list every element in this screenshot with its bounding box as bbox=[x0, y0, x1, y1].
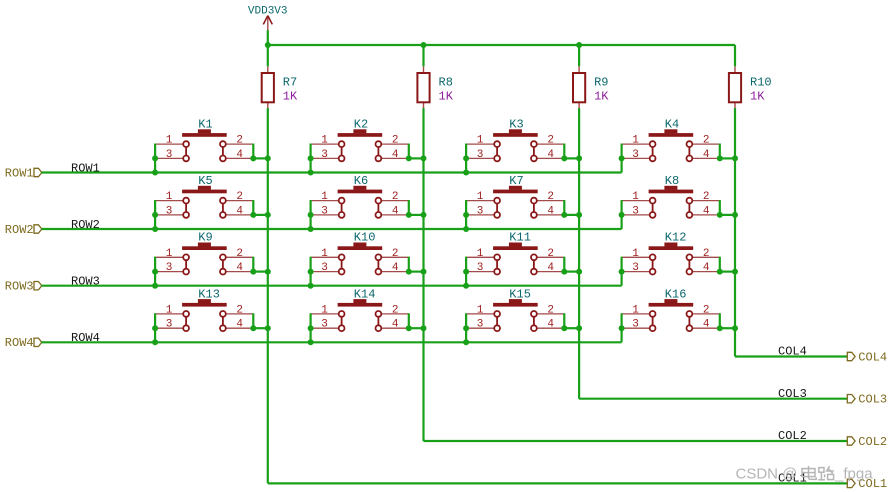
junction: top bus at R7 bbox=[265, 42, 271, 48]
svg-text:_fpga: _fpga bbox=[834, 466, 873, 483]
junction: K12 at COL4 column bbox=[732, 269, 738, 275]
K8 actuator bump bbox=[664, 186, 677, 190]
K16 pin 2 bbox=[692, 313, 720, 315]
junction: K7 pin4/right bbox=[561, 212, 567, 218]
K6 pin 2 bbox=[381, 200, 409, 202]
K2 pin 3 bbox=[311, 157, 339, 159]
wire: R10 to COL4 column bbox=[734, 108, 736, 356]
svg-text:COL3: COL3 bbox=[858, 393, 887, 407]
push button K3 bbox=[466, 118, 564, 162]
svg-text:3: 3 bbox=[477, 319, 484, 331]
K14 pin 1 bbox=[311, 313, 339, 315]
wire: COL4 output run to port bbox=[735, 355, 849, 357]
push button K5 bbox=[155, 174, 253, 218]
junction: K6 pin3/left bbox=[308, 212, 314, 218]
power symbol VDD3V3 bbox=[248, 5, 288, 30]
wire: K4 pin 2 drop bbox=[719, 144, 721, 159]
junction: K6 at ROW2 bus bbox=[308, 226, 314, 232]
K15 button bar bbox=[493, 303, 538, 307]
junction: K8 pin4/right bbox=[717, 212, 723, 218]
junction: K9 at ROW3 bus bbox=[152, 283, 158, 289]
svg-text:COL4: COL4 bbox=[778, 345, 807, 359]
K3 pin 1 bbox=[466, 143, 494, 145]
K5 pin 1 bbox=[155, 200, 183, 202]
wire: top bus to R8 bbox=[422, 45, 424, 66]
wire: K8 pins 1/3 to ROW2 bbox=[620, 200, 622, 229]
svg-text:2: 2 bbox=[703, 191, 710, 203]
K12 left contact link bbox=[652, 261, 654, 269]
K5 pin 3 bbox=[155, 214, 183, 216]
K4 actuator bump bbox=[664, 129, 677, 133]
wire: K11 pins 1/3 to ROW3 bbox=[465, 257, 467, 286]
wire: K5 pins 1/3 to ROW2 bbox=[154, 200, 156, 229]
resistor R8 1K bbox=[417, 66, 453, 108]
K8 button bar bbox=[649, 190, 694, 194]
K1 left contact link bbox=[185, 148, 187, 156]
K6 left contact link bbox=[341, 204, 343, 212]
junction: K2 at ROW1 bus bbox=[308, 170, 314, 176]
svg-text:ROW1: ROW1 bbox=[71, 161, 100, 175]
junction: K1 pin3/left bbox=[152, 155, 158, 161]
K7 pin 3 bbox=[466, 214, 494, 216]
K7 actuator bump bbox=[509, 186, 522, 190]
K15 right contact link bbox=[533, 317, 535, 325]
junction: K2 pin4/right bbox=[406, 155, 412, 161]
K10 button bar bbox=[338, 246, 383, 250]
junction: K1 pin4/right bbox=[250, 155, 256, 161]
K14 actuator bump bbox=[353, 299, 366, 303]
K2 left contact link bbox=[341, 148, 343, 156]
svg-text:2: 2 bbox=[703, 305, 710, 317]
K7 left contact link bbox=[496, 204, 498, 212]
K14 right contact link bbox=[377, 317, 379, 325]
K1 pin 3 bbox=[155, 157, 183, 159]
svg-text:COL2: COL2 bbox=[778, 429, 807, 443]
K9 pin 1 bbox=[155, 256, 183, 258]
junction: K16 at COL4 column bbox=[732, 325, 738, 331]
svg-text:1: 1 bbox=[166, 305, 173, 317]
svg-text:3: 3 bbox=[166, 319, 173, 331]
wire: K12 pin 2 drop bbox=[719, 257, 721, 272]
K9 pin 3 bbox=[155, 271, 183, 273]
junction: top bus at R9 bbox=[576, 42, 582, 48]
K8 pin 1 bbox=[622, 200, 650, 202]
svg-text:3: 3 bbox=[477, 205, 484, 217]
svg-text:ROW1: ROW1 bbox=[5, 166, 34, 180]
K1 pin 2 bbox=[226, 143, 254, 145]
wire: K2 pin 4 to COL2 bbox=[409, 157, 424, 159]
hierarchical port COL3 bbox=[847, 393, 887, 407]
svg-text:ROW4: ROW4 bbox=[5, 336, 34, 350]
svg-text:3: 3 bbox=[321, 262, 328, 274]
svg-text:2: 2 bbox=[236, 191, 243, 203]
K16 right contact link bbox=[688, 317, 690, 325]
wire: K13 pins 1/3 to ROW4 bbox=[154, 313, 156, 342]
junction: K7 pin3/left bbox=[463, 212, 469, 218]
svg-text:1: 1 bbox=[477, 305, 484, 317]
K4 left contact link bbox=[652, 148, 654, 156]
K3 pin 4 bbox=[537, 157, 565, 159]
K1 pin 1 bbox=[155, 143, 183, 145]
hierarchical port COL4 bbox=[847, 350, 887, 364]
K12 actuator bump bbox=[664, 243, 677, 247]
junction: K6 pin4/right bbox=[406, 212, 412, 218]
K3 pin 3 bbox=[466, 157, 494, 159]
junction: K15 pin4/right bbox=[561, 325, 567, 331]
wire: top bus to R9 bbox=[578, 45, 580, 66]
push button K7 bbox=[466, 174, 564, 218]
K2 actuator bump bbox=[353, 129, 366, 133]
wire: K6 pin 4 to COL2 bbox=[409, 214, 424, 216]
push button K11 bbox=[466, 231, 564, 275]
K13 pin 1 bbox=[155, 313, 183, 315]
svg-text:4: 4 bbox=[703, 319, 710, 331]
wire: K15 pin 2 drop bbox=[563, 313, 565, 328]
wire: K13 pin 4 to COL1 bbox=[253, 327, 267, 329]
svg-text:4: 4 bbox=[703, 262, 710, 274]
K14 left contact link bbox=[341, 317, 343, 325]
junction: K4 pin3/left bbox=[619, 155, 625, 161]
svg-text:ROW2: ROW2 bbox=[5, 223, 34, 237]
K16 pin 1 bbox=[622, 313, 650, 315]
svg-text:4: 4 bbox=[236, 149, 243, 161]
junction: K10 at COL2 column bbox=[421, 269, 427, 275]
svg-text:3: 3 bbox=[166, 149, 173, 161]
svg-text:4: 4 bbox=[236, 205, 243, 217]
junction: K8 pin3/left bbox=[619, 212, 625, 218]
junction: K1 at ROW1 bus bbox=[152, 170, 158, 176]
junction: K5 at ROW2 bus bbox=[152, 226, 158, 232]
svg-text:1K: 1K bbox=[283, 90, 298, 104]
svg-text:4: 4 bbox=[392, 149, 399, 161]
push button K13 bbox=[155, 287, 253, 331]
wire: COL2 output run to port bbox=[424, 440, 849, 442]
svg-text:3: 3 bbox=[477, 149, 484, 161]
wire: K14 pins 1/3 to ROW4 bbox=[310, 313, 312, 342]
svg-text:2: 2 bbox=[547, 305, 554, 317]
push button K10 bbox=[311, 231, 409, 275]
wire: K15 pins 1/3 to ROW4 bbox=[465, 313, 467, 342]
svg-text:2: 2 bbox=[703, 135, 710, 147]
junction: K12 pin4/right bbox=[717, 269, 723, 275]
svg-text:1: 1 bbox=[477, 248, 484, 260]
wire: K12 pin 4 to COL4 bbox=[720, 271, 735, 273]
svg-text:2: 2 bbox=[392, 191, 399, 203]
K9 right contact link bbox=[222, 261, 224, 269]
wire: VDD3V3 top bus bbox=[268, 44, 735, 46]
junction: K2 pin3/left bbox=[308, 155, 314, 161]
K11 pin 1 bbox=[466, 256, 494, 258]
junction: K15 at ROW4 bus bbox=[463, 339, 469, 345]
wire: K10 pin 2 drop bbox=[408, 257, 410, 272]
K2 right contact link bbox=[377, 148, 379, 156]
svg-text:1: 1 bbox=[321, 135, 328, 147]
K5 left contact link bbox=[185, 204, 187, 212]
junction: K9 pin3/left bbox=[152, 269, 158, 275]
junction: K6 at COL2 column bbox=[421, 212, 427, 218]
junction: K10 pin4/right bbox=[406, 269, 412, 275]
wire: R7 to COL1 column bbox=[267, 108, 269, 483]
wire: K9 pin 4 to COL1 bbox=[253, 271, 267, 273]
svg-text:1: 1 bbox=[166, 135, 173, 147]
hierarchical port ROW1 bbox=[5, 166, 42, 180]
svg-text:1: 1 bbox=[321, 191, 328, 203]
wire: K4 pin 4 to COL4 bbox=[720, 157, 735, 159]
svg-text:1: 1 bbox=[321, 248, 328, 260]
wire: K4 pins 1/3 to ROW1 bbox=[620, 144, 622, 173]
wire: K5 pin 2 drop bbox=[252, 200, 254, 215]
K8 pin 4 bbox=[692, 214, 720, 216]
junction: K11 pin4/right bbox=[561, 269, 567, 275]
K15 pin 4 bbox=[537, 327, 565, 329]
K8 pin 2 bbox=[692, 200, 720, 202]
junction: K15 pin3/left bbox=[463, 325, 469, 331]
svg-text:2: 2 bbox=[236, 248, 243, 260]
resistor R7 1K bbox=[262, 66, 298, 108]
wire: K14 pin 2 drop bbox=[408, 313, 410, 328]
push button K8 bbox=[622, 174, 720, 218]
K2 pin 2 bbox=[381, 143, 409, 145]
K5 actuator bump bbox=[198, 186, 211, 190]
wire: COL3 output run to port bbox=[579, 398, 849, 400]
wire: K16 pins 1/3 to ROW4 bbox=[620, 313, 622, 342]
wire: K1 pins 1/3 to ROW1 bbox=[154, 144, 156, 173]
svg-text:2: 2 bbox=[392, 135, 399, 147]
K13 button bar bbox=[182, 303, 227, 307]
svg-text:3: 3 bbox=[632, 319, 639, 331]
junction: K3 at ROW1 bus bbox=[463, 170, 469, 176]
K10 pin 2 bbox=[381, 256, 409, 258]
wire: top bus to R7 bbox=[267, 45, 269, 66]
K2 button bar bbox=[338, 133, 383, 137]
K12 right contact link bbox=[688, 261, 690, 269]
wire: K11 pin 4 to COL3 bbox=[564, 271, 579, 273]
svg-text:COL2: COL2 bbox=[858, 435, 887, 449]
svg-text:2: 2 bbox=[547, 191, 554, 203]
junction: K14 at ROW4 bus bbox=[308, 339, 314, 345]
wire: ROW4 bus bbox=[41, 341, 621, 343]
svg-text:4: 4 bbox=[547, 319, 554, 331]
junction: K14 at COL2 column bbox=[421, 325, 427, 331]
K9 pin 2 bbox=[226, 256, 254, 258]
K13 left contact link bbox=[185, 317, 187, 325]
K8 left contact link bbox=[652, 204, 654, 212]
svg-text:3: 3 bbox=[321, 205, 328, 217]
K11 pin 3 bbox=[466, 271, 494, 273]
push button K12 bbox=[622, 231, 720, 275]
K11 pin 4 bbox=[537, 271, 565, 273]
K15 pin 1 bbox=[466, 313, 494, 315]
K3 actuator bump bbox=[509, 129, 522, 133]
junction: K4 at COL4 column bbox=[732, 155, 738, 161]
wire: R8 to COL2 column bbox=[422, 108, 424, 441]
junction: K12 pin3/left bbox=[619, 269, 625, 275]
wire: K15 pin 4 to COL3 bbox=[564, 327, 579, 329]
svg-text:1: 1 bbox=[632, 191, 639, 203]
junction: K16 pin4/right bbox=[717, 325, 723, 331]
K15 pin 2 bbox=[537, 313, 565, 315]
K3 button bar bbox=[493, 133, 538, 137]
junction: K5 pin3/left bbox=[152, 212, 158, 218]
svg-text:R8: R8 bbox=[439, 76, 453, 90]
svg-text:2: 2 bbox=[392, 248, 399, 260]
K11 actuator bump bbox=[509, 243, 522, 247]
wire: K6 pin 2 drop bbox=[408, 200, 410, 215]
K16 pin 4 bbox=[692, 327, 720, 329]
K10 pin 3 bbox=[311, 271, 339, 273]
K2 pin 4 bbox=[381, 157, 409, 159]
K7 right contact link bbox=[533, 204, 535, 212]
K5 pin 4 bbox=[226, 214, 254, 216]
svg-text:1: 1 bbox=[321, 305, 328, 317]
K10 actuator bump bbox=[353, 243, 366, 247]
junction: K9 pin4/right bbox=[250, 269, 256, 275]
hierarchical port ROW3 bbox=[5, 280, 42, 294]
K1 right contact link bbox=[222, 148, 224, 156]
junction: K14 pin4/right bbox=[406, 325, 412, 331]
junction: K3 at COL3 column bbox=[576, 155, 582, 161]
junction: K13 at ROW4 bus bbox=[152, 339, 158, 345]
wire: K13 pin 2 drop bbox=[252, 313, 254, 328]
wire: K12 pins 1/3 to ROW3 bbox=[620, 257, 622, 286]
junction: K5 at COL1 column bbox=[265, 212, 271, 218]
K7 button bar bbox=[493, 190, 538, 194]
svg-text:3: 3 bbox=[321, 149, 328, 161]
svg-text:3: 3 bbox=[632, 205, 639, 217]
svg-text:3: 3 bbox=[632, 262, 639, 274]
wire: K3 pin 4 to COL3 bbox=[564, 157, 579, 159]
wire: K2 pins 1/3 to ROW1 bbox=[310, 144, 312, 173]
wire: ROW3 bus bbox=[41, 285, 621, 287]
junction: K5 pin4/right bbox=[250, 212, 256, 218]
wire: K10 pin 4 to COL2 bbox=[409, 271, 424, 273]
wire: K3 pins 1/3 to ROW1 bbox=[465, 144, 467, 173]
K2 pin 1 bbox=[311, 143, 339, 145]
push button K2 bbox=[311, 118, 409, 162]
svg-text:3: 3 bbox=[477, 262, 484, 274]
junction: K10 pin3/left bbox=[308, 269, 314, 275]
K7 pin 1 bbox=[466, 200, 494, 202]
hierarchical port COL2 bbox=[847, 435, 887, 449]
svg-text:4: 4 bbox=[703, 149, 710, 161]
svg-text:3: 3 bbox=[166, 262, 173, 274]
svg-text:4: 4 bbox=[547, 205, 554, 217]
K1 button bar bbox=[182, 133, 227, 137]
K10 right contact link bbox=[377, 261, 379, 269]
K5 pin 2 bbox=[226, 200, 254, 202]
wire: K16 pin 2 drop bbox=[719, 313, 721, 328]
junction: K10 at ROW3 bus bbox=[308, 283, 314, 289]
K14 pin 2 bbox=[381, 313, 409, 315]
wire: ROW2 bus bbox=[41, 228, 621, 230]
K15 pin 3 bbox=[466, 327, 494, 329]
wire: ROW1 bus bbox=[41, 171, 621, 173]
svg-text:ROW2: ROW2 bbox=[71, 218, 100, 232]
push button K16 bbox=[622, 287, 720, 331]
hierarchical port ROW4 bbox=[5, 336, 42, 350]
K16 pin 3 bbox=[622, 327, 650, 329]
svg-text:COL3: COL3 bbox=[778, 387, 807, 401]
svg-text:R7: R7 bbox=[283, 76, 297, 90]
K11 pin 2 bbox=[537, 256, 565, 258]
junction: K13 pin4/right bbox=[250, 325, 256, 331]
K6 pin 3 bbox=[311, 214, 339, 216]
wire: K14 pin 4 to COL2 bbox=[409, 327, 424, 329]
svg-text:4: 4 bbox=[392, 319, 399, 331]
junction: K3 pin3/left bbox=[463, 155, 469, 161]
K5 right contact link bbox=[222, 204, 224, 212]
svg-text:4: 4 bbox=[236, 319, 243, 331]
watermark CSDN @dianlu_fpga bbox=[736, 466, 874, 483]
svg-text:4: 4 bbox=[703, 205, 710, 217]
svg-text:CSDN @: CSDN @ bbox=[736, 466, 798, 483]
svg-text:R10: R10 bbox=[750, 76, 772, 90]
junction: K4 pin4/right bbox=[717, 155, 723, 161]
K7 pin 2 bbox=[537, 200, 565, 202]
svg-text:4: 4 bbox=[392, 205, 399, 217]
K5 button bar bbox=[182, 190, 227, 194]
svg-text:2: 2 bbox=[547, 248, 554, 260]
K9 actuator bump bbox=[198, 243, 211, 247]
junction: K11 at ROW3 bus bbox=[463, 283, 469, 289]
K4 pin 4 bbox=[692, 157, 720, 159]
svg-text:2: 2 bbox=[236, 135, 243, 147]
svg-text:4: 4 bbox=[392, 262, 399, 274]
hierarchical port COL1 bbox=[847, 477, 887, 491]
junction: K13 at COL1 column bbox=[265, 325, 271, 331]
K10 pin 1 bbox=[311, 256, 339, 258]
junction: K2 at COL2 column bbox=[421, 155, 427, 161]
svg-text:2: 2 bbox=[703, 248, 710, 260]
wire: K11 pin 2 drop bbox=[563, 257, 565, 272]
K4 pin 2 bbox=[692, 143, 720, 145]
K3 right contact link bbox=[533, 148, 535, 156]
svg-text:4: 4 bbox=[236, 262, 243, 274]
wire: R9 to COL3 column bbox=[578, 108, 580, 399]
K4 pin 1 bbox=[622, 143, 650, 145]
wire: top bus to R10 bbox=[734, 45, 736, 66]
svg-text:3: 3 bbox=[166, 205, 173, 217]
push button K4 bbox=[622, 118, 720, 162]
wire: K9 pins 1/3 to ROW3 bbox=[154, 257, 156, 286]
junction: K7 at ROW2 bus bbox=[463, 226, 469, 232]
wire: K8 pin 2 drop bbox=[719, 200, 721, 215]
K13 pin 4 bbox=[226, 327, 254, 329]
K16 left contact link bbox=[652, 317, 654, 325]
svg-text:2: 2 bbox=[236, 305, 243, 317]
push button K15 bbox=[466, 287, 564, 331]
K6 button bar bbox=[338, 190, 383, 194]
wire: K6 pins 1/3 to ROW2 bbox=[310, 200, 312, 229]
K14 pin 3 bbox=[311, 327, 339, 329]
junction: K14 pin3/left bbox=[308, 325, 314, 331]
wire: VDD3V3 vertical drop to top bus bbox=[267, 30, 269, 45]
K16 actuator bump bbox=[664, 299, 677, 303]
junction: K16 pin3/left bbox=[619, 325, 625, 331]
wire: K10 pins 1/3 to ROW3 bbox=[310, 257, 312, 286]
svg-text:R9: R9 bbox=[594, 76, 608, 90]
wire: K9 pin 2 drop bbox=[252, 257, 254, 272]
K13 actuator bump bbox=[198, 299, 211, 303]
svg-text:1: 1 bbox=[477, 191, 484, 203]
K13 pin 3 bbox=[155, 327, 183, 329]
svg-text:ROW4: ROW4 bbox=[71, 331, 100, 345]
junction: K15 at COL3 column bbox=[576, 325, 582, 331]
K14 button bar bbox=[338, 303, 383, 307]
svg-text:1: 1 bbox=[632, 248, 639, 260]
junction: K11 pin3/left bbox=[463, 269, 469, 275]
K15 actuator bump bbox=[509, 299, 522, 303]
